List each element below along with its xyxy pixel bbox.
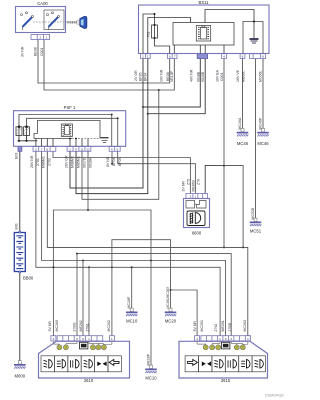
svg-text:MC46: MC46 xyxy=(257,141,269,146)
svg-text:2702: 2702 xyxy=(47,158,51,166)
node pin4 stub xyxy=(111,163,113,165)
svg-text:6: 6 xyxy=(242,55,244,59)
svg-text:ME660: ME660 xyxy=(191,180,195,191)
resistor module 2615 xyxy=(222,342,230,349)
icon fog 2610 xyxy=(71,360,80,369)
ground M000 xyxy=(14,361,26,369)
wire B03 PSF1 to battery B01 xyxy=(19,151,21,232)
svg-text:BB00: BB00 xyxy=(23,276,34,281)
wire rail B to PSF1 pin5 xyxy=(117,118,119,146)
BS11 pins 6,7 xyxy=(167,54,177,59)
2610 pin1 xyxy=(109,336,114,341)
svg-text:BF05: BF05 xyxy=(118,157,122,166)
ignition switch CA00 box xyxy=(16,7,66,33)
bulb 2610-d xyxy=(96,345,101,350)
bulb 2610-b xyxy=(63,345,68,350)
wire CA00 pin1 to BS11 pin7 (VE13P) xyxy=(44,40,174,91)
svg-text:12: 12 xyxy=(86,148,90,152)
svg-text:9: 9 xyxy=(225,337,227,341)
svg-text:MC46P: MC46P xyxy=(259,117,263,129)
BS11 rail3 to internal earth xyxy=(205,10,254,39)
node bs11 pin4 joins bus1 xyxy=(223,246,225,248)
svg-text:MC51: MC51 xyxy=(250,229,262,234)
svg-text:MC261: MC261 xyxy=(200,320,204,331)
svg-text:2: 2 xyxy=(35,148,37,152)
bulb 2610-c xyxy=(90,345,95,350)
svg-text:5: 5 xyxy=(117,148,119,152)
svg-text:MC263: MC263 xyxy=(243,320,247,331)
PSF1 internal earth xyxy=(101,137,109,142)
ground MC10 left xyxy=(126,308,138,316)
wire fuse1 bottom bus xyxy=(18,140,38,142)
BS11 internal earth xyxy=(250,38,259,43)
PSF1 module pin stubs down xyxy=(36,139,53,147)
2615 internal wires xyxy=(197,341,248,344)
svg-text:28V NR: 28V NR xyxy=(30,155,34,168)
fuse PSF1-F2 xyxy=(24,126,30,136)
ground MC10 center xyxy=(145,365,157,373)
icon indicator small 2615 xyxy=(202,362,211,367)
svg-text:1: 1 xyxy=(69,148,71,152)
wire bus1 9V NR from 2610 pin4 to 2615 pin4 xyxy=(47,151,248,335)
svg-text:2701: 2701 xyxy=(36,158,40,166)
2610 connector strip xyxy=(57,336,103,341)
svg-text:ME66L: ME66L xyxy=(241,71,245,82)
fusebox BS11 box xyxy=(139,5,270,54)
svg-text:ME262: ME262 xyxy=(79,320,83,331)
svg-text:MC46: MC46 xyxy=(237,141,249,146)
wire BS11 pin2 down to PSF1 rail A feeding fuse1 xyxy=(19,115,112,127)
BS11 module stubs xyxy=(174,45,224,54)
BS11 internal earth frame xyxy=(243,22,263,54)
svg-text:26V GR: 26V GR xyxy=(64,155,68,168)
bulb 2615-c xyxy=(216,345,221,350)
node fuse1 bottom xyxy=(18,140,20,142)
PSF1 pin group G1 xyxy=(33,147,56,152)
svg-text:BS11: BS11 xyxy=(199,0,210,5)
PSF1 pins 4,5 xyxy=(109,147,120,152)
svg-text:8: 8 xyxy=(46,148,48,152)
BS11 pin 4 xyxy=(222,54,227,59)
node G2c branch xyxy=(158,89,160,91)
2615 connector strip xyxy=(201,336,250,341)
wire bus2 drop to 2610 xyxy=(76,254,78,336)
node earth-frame xyxy=(253,21,255,23)
svg-text:4: 4 xyxy=(247,337,249,341)
BS11 right pins 6,x,6 xyxy=(240,54,265,59)
6600 motor icon box xyxy=(187,211,205,226)
svg-text:Z76: Z76 xyxy=(196,179,200,185)
svg-text:B01: B01 xyxy=(15,223,19,229)
wire BS11 pin to ground MC51 xyxy=(255,58,257,222)
wire BS11 pin to ground MC46 right xyxy=(262,58,264,132)
2615 icon row xyxy=(185,356,265,372)
svg-text:9017D: 9017D xyxy=(82,157,86,168)
svg-text:9018B: 9018B xyxy=(196,71,200,82)
svg-text:M85M1: M85M1 xyxy=(76,156,80,168)
wire PSF1 pin4 stub xyxy=(111,151,113,163)
wire fuse1 to fuse bottoms xyxy=(19,136,27,141)
icon direction arrow 2610 xyxy=(109,359,119,365)
svg-text:ME261: ME261 xyxy=(221,320,225,331)
node bus2 t 2610 xyxy=(76,253,78,255)
bulb 2615-d xyxy=(234,345,239,350)
switch contact 2 xyxy=(47,12,60,30)
CA00 pin strip xyxy=(31,35,50,40)
svg-text:8: 8 xyxy=(82,337,84,341)
resistor module 2610 xyxy=(80,342,88,349)
wire PSF1 pin5 to 6600 pin2 xyxy=(118,151,196,193)
svg-text:BF34: BF34 xyxy=(143,72,147,81)
node branch-bus1 xyxy=(242,246,244,248)
svg-text:1: 1 xyxy=(111,337,113,341)
svg-text:M88M1: M88M1 xyxy=(42,156,46,168)
svg-text:9V NR: 9V NR xyxy=(193,321,197,332)
svg-text:4: 4 xyxy=(53,337,55,341)
ground MC46 left xyxy=(237,128,249,136)
svg-text:B03: B03 xyxy=(15,153,19,159)
svg-text:27BD: 27BD xyxy=(228,322,232,331)
wire 6600 pin4 jog to BS11 pin4 vertical xyxy=(205,166,224,194)
svg-text:MC10: MC10 xyxy=(126,319,138,324)
svg-text:40V NR: 40V NR xyxy=(190,69,194,82)
wire 2610 pin1 up to MC20 rail xyxy=(112,240,171,336)
bulb 2610-a xyxy=(57,345,62,350)
fuse F11 xyxy=(152,13,170,54)
key shaft xyxy=(67,21,77,23)
svg-text:ME18P: ME18P xyxy=(146,353,150,365)
svg-text:9V NR: 9V NR xyxy=(48,321,52,332)
node railB-pin5 xyxy=(117,117,119,119)
svg-text:2: 2 xyxy=(142,55,144,59)
svg-text:4: 4 xyxy=(111,148,113,152)
wire MC10 center up to bus1 xyxy=(150,247,152,368)
svg-text:1: 1 xyxy=(46,36,48,40)
BS11 rail2 xyxy=(148,18,191,54)
node fuse2 bottom xyxy=(25,140,27,142)
switch contact 1 xyxy=(21,12,34,30)
node mc10c-bus3 xyxy=(150,260,152,262)
svg-text:MC66L: MC66L xyxy=(259,71,263,82)
wire PSF1 pin G1d to 6600 pin1 xyxy=(53,151,190,193)
svg-text:3: 3 xyxy=(196,337,198,341)
wire bus3 drop to 2610 xyxy=(82,261,84,336)
icon position 2615 xyxy=(214,360,223,369)
icon high beam 2610 xyxy=(57,360,66,369)
svg-text:Z75: Z75 xyxy=(186,179,190,185)
icon direction arrow 2615 xyxy=(188,359,198,365)
svg-text:BE08: BE08 xyxy=(34,47,38,56)
node pin3-mc20 xyxy=(170,289,172,291)
wire net 40VNR-B: BS11 purple pinB jog, down, staircase to PSF1 G2b xyxy=(76,58,205,194)
fusebox PSF1 box xyxy=(14,111,126,147)
2610 pin4 xyxy=(51,336,56,341)
svg-text:2: 2 xyxy=(76,337,78,341)
svg-text:2762: 2762 xyxy=(214,324,218,332)
wire bus4 from PSF1 G1a to 2615 xyxy=(36,151,220,335)
svg-text:MC10: MC10 xyxy=(145,376,157,381)
PSF1 module box with stepped left edge xyxy=(34,121,100,139)
svg-text:9018A: 9018A xyxy=(88,157,92,168)
ground MC51 xyxy=(250,218,262,226)
svg-text:10V NR: 10V NR xyxy=(160,69,164,82)
wire CA00 pin2 to BS11 pin6 (BE08) xyxy=(38,40,170,84)
svg-text:2615: 2615 xyxy=(221,378,231,383)
svg-text:1: 1 xyxy=(88,337,90,341)
ground MC46 right xyxy=(257,128,269,136)
icon low beam 2615 xyxy=(255,360,264,369)
headlamp 2615 body xyxy=(179,341,268,378)
svg-text:6: 6 xyxy=(169,55,171,59)
wire bus4 to ground MC10 left xyxy=(131,267,133,311)
svg-text:9019B: 9019B xyxy=(201,71,205,82)
svg-text:11: 11 xyxy=(80,148,83,152)
CA00 inner housing xyxy=(44,10,64,30)
svg-text:6: 6 xyxy=(262,55,264,59)
wire 2615 pin3 to MC20 rail xyxy=(171,290,198,336)
PSF1 pin group G2 xyxy=(67,147,91,152)
node bus3 t 2610 xyxy=(82,260,84,262)
6600 motor icon xyxy=(190,213,201,224)
svg-text:CA00: CA00 xyxy=(37,1,48,6)
svg-text:1: 1 xyxy=(147,55,149,59)
svg-text:3V NR: 3V NR xyxy=(21,46,25,57)
ground MC20 xyxy=(165,308,177,316)
bulb 2610-e xyxy=(101,345,106,350)
wire bus3 from PSF1 G1c to 2615 xyxy=(42,151,226,335)
svg-text:D3BM04QB: D3BM04QB xyxy=(265,394,284,398)
2615 pin4 xyxy=(245,336,250,341)
wire battery to ground M000 xyxy=(19,272,21,365)
bulb 2615-b xyxy=(210,345,215,350)
wire net G2c branch from CA00 run, staircase xyxy=(82,90,159,199)
node riser4-bus4 xyxy=(52,266,54,268)
node railA-pin4 xyxy=(111,114,113,116)
svg-text:MC260: MC260 xyxy=(55,320,59,331)
BS11 module box xyxy=(173,23,234,46)
icon indicator small 2610 xyxy=(97,362,106,367)
svg-text:MC52B: MC52B xyxy=(251,207,255,219)
svg-text:10V BA: 10V BA xyxy=(216,69,220,82)
2610 internal wires xyxy=(53,341,112,344)
svg-text:2: 2 xyxy=(39,36,41,40)
wire branch right to bus1 xyxy=(224,166,243,248)
svg-text:MC46A: MC46A xyxy=(238,117,242,129)
wire net G2d down to long rail and bus1/MC10 xyxy=(88,151,151,247)
node bus4 t 2610 xyxy=(88,266,90,268)
svg-text:7: 7 xyxy=(41,148,43,152)
svg-text:27BG: 27BG xyxy=(73,322,77,331)
svg-text:BF04: BF04 xyxy=(112,157,116,166)
battery BB00 xyxy=(14,231,25,273)
svg-text:BE08: BE08 xyxy=(166,72,170,81)
svg-text:F11: F11 xyxy=(147,32,151,37)
svg-text:1: 1 xyxy=(219,337,221,341)
svg-text:MC261/MC263: MC261/MC263 xyxy=(166,287,170,309)
wire rail A to PSF1 pin4 xyxy=(111,115,113,147)
fuse PSF1-F1 xyxy=(16,126,22,136)
2615 pin3 xyxy=(195,336,200,341)
svg-text:C001: C001 xyxy=(220,72,224,81)
6600 pin strip xyxy=(186,194,208,199)
svg-text:MC18P: MC18P xyxy=(127,296,131,308)
svg-text:9: 9 xyxy=(75,148,77,152)
node bus4-mc10 xyxy=(131,266,133,268)
6600 relay cells xyxy=(186,201,195,209)
bulb 2615-e xyxy=(240,345,245,350)
wire BS11 pin1 down to PSF1 rail B feeding fuse2 xyxy=(27,118,118,127)
svg-text:BF35: BF35 xyxy=(138,72,142,81)
svg-text:VE13P: VE13P xyxy=(170,70,174,82)
icon low beam 2610 xyxy=(44,360,53,369)
svg-text:PSF 1: PSF 1 xyxy=(64,105,76,110)
node module pin b xyxy=(75,138,77,140)
svg-text:3V NR: 3V NR xyxy=(182,181,186,192)
mechanical link dashed xyxy=(33,21,67,23)
icon high beam 2615 xyxy=(241,360,250,369)
svg-text:M88M2: M88M2 xyxy=(70,156,74,168)
svg-text:16V VE: 16V VE xyxy=(236,69,240,82)
BS11 purple pins xyxy=(197,54,207,59)
icon fog 2615 xyxy=(228,360,237,369)
wire bus2 from PSF1 G1b to 2615 xyxy=(77,254,231,336)
svg-text:6600: 6600 xyxy=(192,231,202,236)
svg-text:MC20: MC20 xyxy=(165,319,177,324)
2610 icon row xyxy=(41,356,121,372)
icon position 2610 xyxy=(84,360,93,369)
node riser1-bus4 xyxy=(111,266,113,268)
svg-text:8V NR: 8V NR xyxy=(106,156,110,167)
BS11 rail1 xyxy=(143,14,155,54)
node module pin a xyxy=(69,138,71,140)
svg-text:7: 7 xyxy=(174,55,176,59)
BS11 pins 2,1 xyxy=(141,54,151,59)
svg-text:MC262: MC262 xyxy=(107,320,111,331)
svg-text:27B1: 27B1 xyxy=(85,323,89,331)
wire net 40VNR-A: BS11 purple pinA jog, down right of PSF1, staircase to PSF1 G2a xyxy=(70,58,200,188)
wire bus4 drop to 2610 xyxy=(88,267,90,335)
wire BS11 pin to ground MC46 left xyxy=(242,58,244,132)
svg-text:2610: 2610 xyxy=(84,378,94,383)
PSF1 pin B03 xyxy=(18,147,22,152)
node jog right xyxy=(223,165,225,167)
headlamp 2610 body xyxy=(39,341,130,378)
svg-text:M000: M000 xyxy=(15,374,26,379)
BS11 module IC xyxy=(196,26,210,42)
bulb 2615-a xyxy=(203,345,208,350)
key head xyxy=(80,16,87,28)
svg-text:4: 4 xyxy=(223,55,225,59)
svg-text:C001: C001 xyxy=(40,47,44,56)
svg-text:2: 2 xyxy=(230,337,232,341)
PSF1 module IC xyxy=(61,124,72,136)
PSF1 module bottom dashed xyxy=(34,138,72,140)
starter 6600 box xyxy=(184,199,210,228)
wire BS11 pin4 down to bus1 xyxy=(223,58,225,247)
